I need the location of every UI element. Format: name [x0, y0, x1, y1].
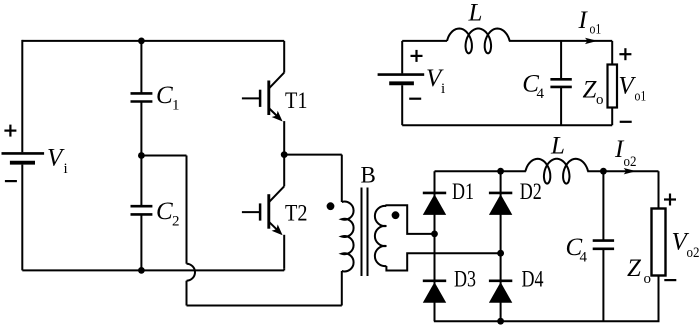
svg-text:i: i — [441, 81, 445, 97]
svg-text:D3: D3 — [454, 266, 476, 291]
transistor T2 collector diagonal — [269, 186, 284, 202]
inductor L2 — [525, 159, 588, 184]
battery Vi2 long plate — [378, 73, 425, 76]
svg-text:o2: o2 — [687, 245, 700, 261]
diode D1 — [423, 192, 446, 195]
transistor T2 emitter lead — [283, 235, 285, 268]
wire bottom rail 2 — [402, 124, 612, 126]
transistor T2 collector lead — [283, 155, 285, 187]
node bridge right mid — [497, 250, 504, 257]
wire bridge bottom rail — [434, 320, 660, 322]
capacitor C2 — [131, 205, 153, 208]
wire load2 leg lower — [658, 276, 660, 322]
diode D2 — [489, 192, 512, 195]
wire top rail — [22, 40, 284, 42]
transistor T1 collector lead — [283, 41, 285, 73]
svg-text:L: L — [468, 0, 483, 27]
resistor Zo1 — [608, 65, 618, 108]
transistor T2 gate bar — [259, 203, 262, 220]
wire bridge top rail — [435, 170, 526, 172]
svg-text:T1: T1 — [285, 88, 308, 113]
svg-text:Z: Z — [627, 255, 642, 282]
wire secondary bottom lead — [386, 253, 500, 270]
svg-text:o: o — [644, 271, 652, 287]
inductor L1 — [447, 29, 510, 54]
capacitor C1 — [131, 92, 153, 95]
diode D4 — [489, 279, 512, 282]
transistor T1 collector diagonal — [269, 73, 284, 89]
battery Vi short plate — [10, 161, 35, 165]
svg-text:B: B — [361, 163, 376, 188]
wire bottom return — [187, 305, 342, 307]
svg-text:C: C — [156, 82, 173, 109]
wire top rail left — [402, 40, 447, 42]
wire L2 to corner — [587, 170, 658, 172]
svg-text:1: 1 — [172, 98, 180, 114]
wire bottom rail to T2 emitter — [283, 268, 285, 270]
transistor T1 gate bar — [259, 90, 262, 107]
node top rail / cap leg — [138, 38, 145, 45]
wire midpoint to primary — [284, 154, 342, 156]
transformer secondary winding — [375, 206, 387, 266]
node bottom rail / cap leg — [138, 267, 145, 274]
wire load2 leg upper — [658, 171, 660, 208]
wire cap midpoint to right — [141, 155, 186, 157]
svg-text:C: C — [156, 198, 173, 225]
minus sign Vo2 — [664, 279, 676, 281]
svg-text:4: 4 — [580, 250, 588, 266]
wire C2 to bottom rail — [140, 214, 142, 270]
svg-text:D2: D2 — [520, 179, 542, 204]
wire hop to corner — [186, 281, 188, 306]
wire bottom rail — [22, 269, 284, 271]
transistor T1 emitter diagonal — [269, 108, 279, 118]
wire top rail right — [509, 40, 612, 42]
wire C1 to midpoint — [140, 102, 142, 207]
wire hop over bottom rail — [187, 264, 196, 281]
transistor T1 body bar — [267, 81, 270, 116]
current arrow Io2 — [624, 168, 637, 174]
transistor T1 emitter lead — [283, 121, 285, 155]
svg-text:2: 2 — [172, 214, 180, 230]
svg-text:o1: o1 — [635, 89, 647, 105]
svg-text:L: L — [550, 133, 565, 160]
node T1/T2 midpoint — [281, 151, 288, 158]
wire C4b leg lower — [602, 249, 604, 321]
wire down to hop — [186, 156, 188, 264]
battery Vi2 short plate — [389, 81, 414, 85]
capacitor C4a — [550, 78, 571, 81]
node bridge bottom right — [497, 318, 504, 325]
transformer core — [361, 188, 363, 277]
wire bridge right leg — [500, 171, 502, 321]
plus sign Vo2 — [664, 198, 676, 200]
transistor T1 emitter arrow — [272, 111, 283, 122]
transformer secondary polarity dot — [392, 211, 400, 219]
svg-text:T2: T2 — [285, 201, 308, 226]
svg-text:4: 4 — [537, 86, 545, 102]
node cap midpoint — [138, 152, 145, 159]
transistor T2 gate lead — [242, 211, 260, 213]
node bridge top right — [497, 168, 504, 175]
wire rail to L2 — [524, 170, 527, 172]
wire C4a leg lower — [560, 87, 562, 125]
svg-text:D4: D4 — [522, 266, 544, 291]
wire load leg upper — [611, 41, 613, 65]
diode D3 — [423, 279, 446, 282]
wire C4b leg upper — [602, 171, 604, 240]
battery Vi2 minus sign — [409, 98, 421, 100]
wire up to primary bottom — [341, 271, 343, 306]
resistor Zo2 — [652, 209, 666, 276]
wire left rail lower — [21, 165, 23, 271]
wire primary feed — [341, 155, 343, 202]
svg-text:o2: o2 — [624, 154, 637, 170]
transformer primary winding — [342, 202, 354, 272]
wire left rail upper — [21, 40, 23, 152]
transistor T1 gate lead — [242, 97, 260, 99]
transistor T2 emitter arrow — [272, 224, 283, 235]
battery Vi minus sign — [5, 180, 17, 182]
wire capacitor leg upper — [140, 41, 142, 94]
svg-text:o1: o1 — [590, 22, 602, 38]
plus sign Vo1 — [619, 53, 631, 55]
wire source leg lower — [401, 85, 403, 125]
svg-text:o: o — [596, 92, 604, 108]
wire C4a leg upper — [560, 41, 562, 79]
transistor T2 emitter diagonal — [269, 222, 279, 232]
battery Vi2 plus sign — [411, 55, 423, 57]
current arrow Io1 — [585, 38, 598, 44]
wire load leg lower — [611, 108, 613, 126]
wire source leg upper — [401, 41, 403, 74]
wire secondary top lead — [386, 205, 434, 234]
capacitor C4b — [593, 239, 614, 242]
svg-text:i: i — [64, 161, 68, 177]
node bridge left mid — [431, 231, 438, 238]
minus sign Vo1 — [620, 121, 632, 123]
wire bridge left leg — [434, 171, 436, 321]
transformer primary polarity dot — [327, 202, 335, 210]
svg-text:D1: D1 — [452, 179, 474, 204]
battery Vi long plate — [2, 152, 45, 155]
transistor T2 body bar — [267, 194, 270, 229]
node C4b top — [600, 168, 607, 175]
battery Vi plus sign — [4, 130, 16, 132]
